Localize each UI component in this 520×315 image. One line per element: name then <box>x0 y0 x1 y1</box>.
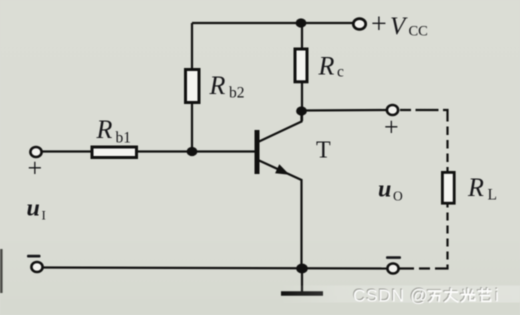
label plus output <box>384 113 399 142</box>
transistor T emitter arrowhead <box>275 164 289 175</box>
label minus input <box>27 255 41 258</box>
svg-text:R: R <box>96 115 113 144</box>
left edge dark smudge <box>0 249 3 293</box>
resistor Rb2 <box>186 70 200 103</box>
svg-text:+: + <box>384 113 399 142</box>
resistor RL <box>442 172 454 203</box>
watermark glyph mang <box>479 289 492 301</box>
wire ground stub <box>301 269 303 293</box>
terminal input bottom <box>31 262 42 272</box>
watermark glyph wan shadow <box>428 290 441 301</box>
wire dashed top and right vertical upper <box>400 110 448 171</box>
svg-text:c: c <box>337 64 344 81</box>
wire top rail <box>192 22 354 24</box>
svg-text:CC: CC <box>409 24 428 40</box>
label T <box>316 138 331 164</box>
label uO <box>378 177 403 204</box>
label uI <box>27 196 46 223</box>
wire collector to output <box>302 109 386 112</box>
node base junction <box>187 147 198 156</box>
svg-text:R: R <box>209 71 226 100</box>
svg-text:i: i <box>495 286 499 306</box>
transistor T collector lead <box>258 110 302 142</box>
label RL <box>467 173 497 204</box>
svg-text:+: + <box>28 154 43 183</box>
ground <box>281 291 323 296</box>
wire Rb2 branch upper segment <box>191 23 193 69</box>
wire Rc to collector <box>301 83 303 122</box>
svg-text:+: + <box>371 9 387 40</box>
label Rb2 <box>209 71 245 102</box>
svg-text:R: R <box>318 52 335 81</box>
watermark glyph zhang shadow <box>444 288 457 301</box>
wire rail to Rc <box>301 23 303 49</box>
resistor Rb1 <box>92 147 137 158</box>
svg-text:I: I <box>42 208 46 223</box>
svg-text:L: L <box>488 187 497 204</box>
node top junction <box>296 18 307 27</box>
label Rb1 <box>96 115 132 147</box>
transistor T emitter lead <box>258 160 302 268</box>
transistor T base bar <box>255 130 260 174</box>
svg-text:b2: b2 <box>229 85 245 102</box>
watermark glyph zhang <box>445 289 458 302</box>
wire bottom rail <box>43 268 387 269</box>
node emitter bottom junction <box>296 264 308 274</box>
watermark glyph mang shadow <box>478 288 491 300</box>
watermark glyph guang shadow <box>461 288 474 301</box>
terminal output minus <box>387 264 398 274</box>
terminal +Vcc <box>353 19 365 30</box>
wire Rb1 to base <box>137 150 255 152</box>
svg-text:O: O <box>393 189 403 204</box>
watermark glyph guang <box>462 289 475 302</box>
wire input to Rb1 <box>41 150 92 152</box>
terminal input top <box>30 147 41 157</box>
svg-text:T: T <box>316 138 331 164</box>
svg-text:b1: b1 <box>116 130 132 147</box>
label Rc <box>318 52 345 81</box>
svg-text:CSDN @: CSDN @ <box>353 286 428 306</box>
watermark band <box>280 286 520 303</box>
svg-text:u: u <box>27 196 40 222</box>
terminal output plus <box>387 105 398 115</box>
svg-text:u: u <box>378 177 391 203</box>
label plus input <box>28 154 43 183</box>
label minus output <box>386 256 401 259</box>
svg-text:R: R <box>467 173 484 202</box>
node collector junction <box>296 106 307 115</box>
wire dashed bottom and right vertical lower <box>399 204 448 269</box>
watermark glyph wan <box>429 291 442 302</box>
wire Rb2 branch lower segment <box>191 104 193 151</box>
label +Vcc <box>371 9 428 40</box>
resistor Rc <box>295 49 307 82</box>
